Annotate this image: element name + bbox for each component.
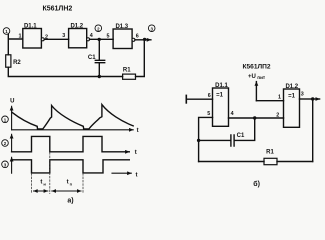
svg-text:U: U bbox=[10, 98, 14, 104]
svg-text:3: 3 bbox=[150, 26, 153, 31]
svg-text:1: 1 bbox=[19, 34, 22, 40]
svg-text:п: п bbox=[70, 182, 73, 187]
svg-text:C1: C1 bbox=[237, 133, 245, 139]
svg-text:6: 6 bbox=[208, 93, 211, 99]
svg-text:2: 2 bbox=[276, 112, 279, 118]
svg-text:5: 5 bbox=[107, 34, 110, 40]
svg-text:6: 6 bbox=[136, 34, 139, 40]
svg-text:1: 1 bbox=[4, 117, 7, 122]
svg-text:К561ЛН2: К561ЛН2 bbox=[42, 5, 72, 12]
svg-text:t: t bbox=[135, 150, 137, 156]
svg-text:1: 1 bbox=[5, 29, 8, 34]
svg-text:2: 2 bbox=[45, 35, 48, 41]
svg-text:t: t bbox=[137, 128, 139, 134]
svg-text:R1: R1 bbox=[123, 68, 131, 74]
svg-text:D1.2: D1.2 bbox=[70, 24, 83, 30]
svg-text:t: t bbox=[136, 173, 138, 179]
svg-text:3: 3 bbox=[62, 33, 65, 39]
svg-text:4: 4 bbox=[231, 111, 234, 117]
svg-text:б): б) bbox=[253, 180, 260, 188]
svg-text:а): а) bbox=[67, 197, 73, 204]
svg-text:К561ЛП2: К561ЛП2 bbox=[242, 63, 270, 70]
svg-text:=1: =1 bbox=[216, 92, 224, 98]
svg-text:D1.1: D1.1 bbox=[24, 24, 37, 30]
svg-text:t: t bbox=[40, 180, 42, 186]
svg-text:3: 3 bbox=[4, 162, 7, 167]
svg-text:1: 1 bbox=[278, 95, 281, 101]
svg-text:D1.1: D1.1 bbox=[215, 83, 228, 89]
svg-text:2: 2 bbox=[4, 141, 7, 146]
svg-text:и: и bbox=[43, 182, 46, 187]
svg-text:3: 3 bbox=[301, 92, 304, 98]
svg-text:4: 4 bbox=[90, 33, 93, 39]
svg-text:R2: R2 bbox=[13, 60, 21, 66]
svg-text:+U: +U bbox=[248, 74, 256, 80]
svg-text:пит: пит bbox=[257, 75, 266, 80]
svg-text:5: 5 bbox=[207, 111, 210, 117]
svg-text:C1: C1 bbox=[88, 55, 96, 61]
svg-text:2: 2 bbox=[97, 26, 100, 31]
svg-text:D1.3: D1.3 bbox=[115, 24, 128, 30]
svg-text:=1: =1 bbox=[288, 93, 296, 99]
svg-text:t: t bbox=[67, 180, 69, 186]
svg-text:R1: R1 bbox=[266, 150, 274, 156]
svg-text:D1.2: D1.2 bbox=[285, 84, 298, 90]
